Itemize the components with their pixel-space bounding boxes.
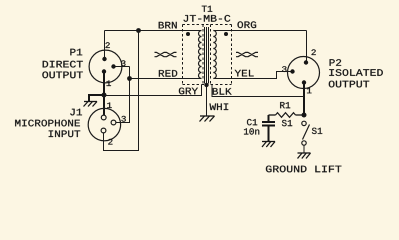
label P2 pin 3 [282,66,286,72]
wire junction to J1 pin1 thick [103,95,105,115]
resistor R1 [276,113,296,118]
label DIRECT [43,61,83,68]
resistor R1 lead right [296,114,305,116]
label OUTPUT [42,72,82,79]
wire ground stub left [89,95,104,101]
label P1 pin 2 [106,42,110,48]
ground chassis at S1 [298,153,311,159]
ground chassis at P1 [84,102,98,107]
label J1 pin 3 [121,116,125,122]
transformer primary winding [199,31,202,79]
pin P1-2 [102,57,106,61]
label P2 [330,59,342,66]
label J1 pin 1 [107,103,112,109]
label P1 pin 3 [121,60,125,66]
capacitor C1 top lead [268,115,270,122]
pin P1-3 [111,64,115,68]
label INPUT [49,131,80,138]
connector J1 [88,108,120,140]
transformer T1 shield box left dashed [183,24,232,26]
wire J1 pin2 drop [103,133,105,151]
connector P2 [288,57,320,89]
label T1 [202,6,212,12]
node R1 junction [302,113,307,118]
label S1 left [282,120,292,126]
node BRN junction [136,28,141,33]
wire GRY shield lead [105,85,202,96]
pin P2-3 [290,69,294,73]
switch S1 bottom contact [302,141,306,145]
label C1 [247,119,257,125]
wire RED to transformer primary [130,78,202,80]
label RED [159,70,177,77]
ground chassis WHI [200,116,215,122]
wire bottom horizontal to J1 pin2 [104,150,139,152]
wire P2 pin1 down thick [303,83,305,117]
label WHI [210,104,229,111]
label S1 right [312,128,322,134]
wire P1 pin1 down thick [103,72,105,96]
label R1 [280,102,290,108]
pin P2-1 [302,80,306,84]
label BRN [159,22,177,29]
phase dot primary [186,32,190,36]
label JT-MB-C [184,15,231,22]
label GROUND LIFT [266,166,342,173]
twisted pair symbol left [155,52,177,56]
capacitor C1 bottom lead [268,126,270,142]
label ISOLATED [329,69,383,76]
label MICROPHONE [15,120,80,127]
label P1 pin 1 [107,81,112,87]
node ground junction [102,93,107,98]
wire vertical junction to J1 pin2 run [138,31,140,152]
transformer secondary winding [213,31,216,79]
label 10n [244,128,259,134]
wire down to P2 pin2 [306,31,308,63]
wire P1 pin2 up [104,31,106,60]
capacitor C1 plates [262,121,275,123]
label J1 pin 2 [108,139,112,145]
wire S1 to ground [303,145,305,153]
wire YEL to P2 pin3 [213,72,292,79]
label J1 [70,109,82,116]
label OUTPUT P2 [329,81,369,88]
pin P1-1 [102,69,106,73]
wire WHI down [206,84,208,117]
transformer core [204,27,206,84]
resistor R1 lead left [269,114,276,116]
wire BRN top horizontal [105,30,202,32]
switch S1 lever [303,125,310,140]
phase dot secondary [224,32,228,36]
pin J1-3 [111,120,116,125]
label BLK [213,88,232,95]
wire J1 pin3 stub [116,122,130,124]
node RED junction [127,76,132,81]
pin J1-2 [101,128,106,133]
connector P1 [89,50,122,83]
pin P2-2 [304,60,308,64]
label P2 pin 2 [312,49,316,55]
label GRY [179,88,198,95]
pin J1-1 [101,115,106,120]
transformer T1 shield box right dashed [210,25,212,85]
label P2 pin 1 [307,88,312,94]
wire vertical P1.3 to J1.3 [129,67,131,124]
label P1 [70,49,82,56]
switch S1 top contact [302,121,306,125]
label ORG [238,21,257,28]
wire BLK shield lead [212,85,304,97]
node WHI dot [204,83,208,87]
label YEL [235,70,254,77]
twisted pair symbol right [236,52,258,56]
ground chassis at C1 [262,142,275,148]
wire ORG top horizontal [213,30,306,32]
wire P1 pin3 right [114,66,130,68]
